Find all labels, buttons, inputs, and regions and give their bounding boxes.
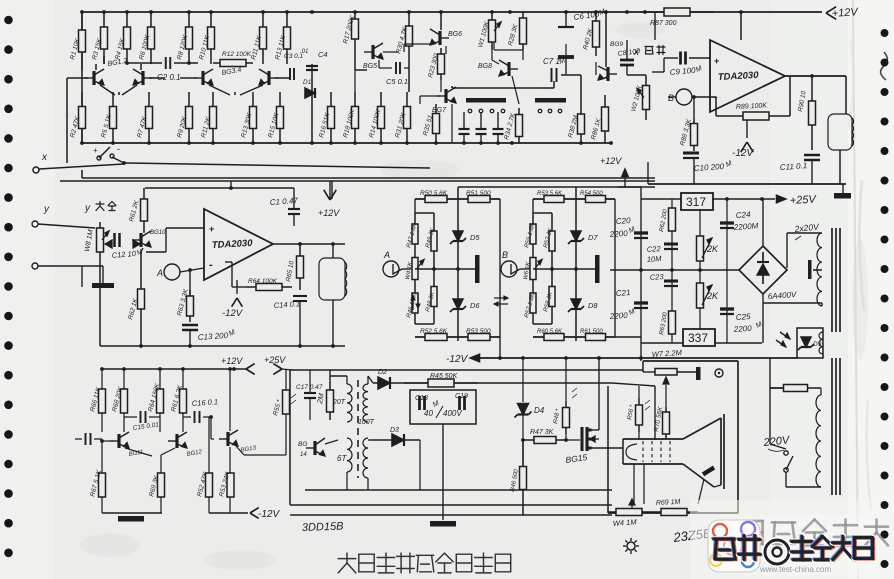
svg-text:C25: C25 (736, 312, 752, 322)
svg-text:-12V: -12V (446, 354, 468, 365)
svg-text:10M: 10M (647, 254, 663, 264)
svg-text:y: y (43, 204, 50, 215)
svg-text:D2: D2 (378, 369, 387, 376)
svg-text:+: + (714, 56, 719, 66)
svg-text:R87 300: R87 300 (650, 20, 677, 27)
svg-text:C18: C18 (415, 395, 428, 402)
svg-text:337: 337 (688, 331, 708, 345)
svg-text:+: + (93, 146, 98, 155)
svg-text:x: x (633, 47, 640, 58)
svg-text:+: + (209, 224, 214, 234)
svg-text:2200: 2200 (609, 229, 629, 239)
svg-text:R12 100K: R12 100K (222, 51, 252, 58)
svg-text:TDA2030: TDA2030 (212, 238, 254, 251)
svg-text:B: B (668, 93, 674, 103)
svg-text:D7: D7 (588, 233, 598, 242)
svg-text:R69 1M: R69 1M (656, 499, 681, 507)
svg-text:+12V: +12V (318, 208, 340, 218)
svg-text:C11 0.1: C11 0.1 (780, 161, 808, 172)
svg-text:R45 50K: R45 50K (430, 373, 458, 380)
svg-text:20T: 20T (332, 399, 346, 406)
svg-text:+25V: +25V (264, 355, 286, 365)
svg-text:C16 0.1: C16 0.1 (192, 397, 219, 408)
svg-text:R60 5.6K: R60 5.6K (537, 329, 563, 335)
svg-text:R50 5.6K: R50 5.6K (420, 190, 448, 197)
svg-text:D4: D4 (534, 406, 545, 415)
svg-text:BG: BG (298, 441, 307, 448)
svg-text:+12V: +12V (221, 356, 243, 366)
svg-text:+12V: +12V (600, 156, 622, 166)
svg-text:BG8: BG8 (478, 63, 492, 70)
svg-text:R52 5.6K: R52 5.6K (420, 328, 448, 335)
svg-text:R47 3K: R47 3K (530, 429, 554, 436)
svg-text:C24: C24 (736, 210, 752, 220)
svg-text:D1: D1 (303, 79, 312, 86)
svg-text:C22: C22 (647, 244, 662, 254)
svg-text:2200: 2200 (609, 311, 629, 321)
svg-text:-12V: -12V (732, 148, 754, 159)
svg-text:400V: 400V (443, 409, 462, 418)
svg-text:-: - (117, 144, 120, 154)
svg-text:-12V: -12V (222, 308, 244, 319)
svg-text:-12V: -12V (258, 509, 280, 520)
svg-text:D6: D6 (470, 301, 480, 310)
svg-text:D3: D3 (390, 427, 399, 434)
svg-text:R53 500: R53 500 (466, 328, 491, 335)
svg-text:BG10: BG10 (150, 230, 166, 236)
svg-text:C23: C23 (650, 272, 665, 282)
svg-text:.01: .01 (300, 49, 308, 55)
svg-text:C14 0.1: C14 0.1 (274, 299, 301, 310)
svg-text:C5 0.1: C5 0.1 (386, 77, 408, 86)
svg-text:x: x (41, 152, 48, 163)
svg-text:+25V: +25V (790, 194, 818, 207)
svg-text:2200: 2200 (733, 324, 753, 334)
svg-text:+12V: +12V (831, 6, 859, 20)
svg-text:C4: C4 (318, 50, 328, 59)
svg-text:C19: C19 (455, 393, 468, 400)
svg-text:www.test-china.com: www.test-china.com (759, 565, 831, 574)
svg-text:B: B (502, 250, 508, 260)
svg-text:BG6: BG6 (448, 31, 462, 38)
svg-text:A: A (383, 250, 390, 260)
svg-text:y: y (84, 203, 91, 214)
svg-text:TDA2030: TDA2030 (718, 70, 760, 83)
svg-text:2200M: 2200M (733, 221, 759, 232)
svg-text:2K: 2K (706, 291, 719, 301)
svg-text:W4 1M: W4 1M (613, 517, 638, 528)
svg-text:BG9: BG9 (610, 41, 623, 48)
svg-text:6T: 6T (337, 454, 347, 463)
svg-text:R53 5.6K: R53 5.6K (537, 191, 563, 197)
svg-text:C21: C21 (616, 288, 631, 298)
svg-text:14: 14 (300, 452, 307, 458)
svg-text:BG5: BG5 (363, 63, 377, 70)
svg-text:R51 500: R51 500 (466, 190, 491, 197)
svg-text:R64 100K: R64 100K (248, 278, 278, 285)
svg-text:3DD15B: 3DD15B (302, 521, 344, 534)
svg-text:-: - (209, 259, 213, 271)
svg-text:R61 500: R61 500 (580, 329, 603, 335)
svg-text:D5: D5 (470, 233, 480, 242)
svg-text:C2 0.1: C2 0.1 (157, 73, 181, 82)
svg-text:C20: C20 (616, 216, 632, 226)
svg-text:C7 1: C7 1 (543, 57, 560, 66)
svg-text:D8: D8 (588, 301, 598, 310)
svg-text:317: 317 (686, 195, 706, 209)
svg-text:A: A (156, 268, 163, 278)
svg-text:40: 40 (424, 409, 433, 418)
svg-text:100T: 100T (358, 419, 375, 426)
svg-text:2K: 2K (706, 244, 719, 254)
svg-text:R54 500: R54 500 (580, 191, 603, 197)
